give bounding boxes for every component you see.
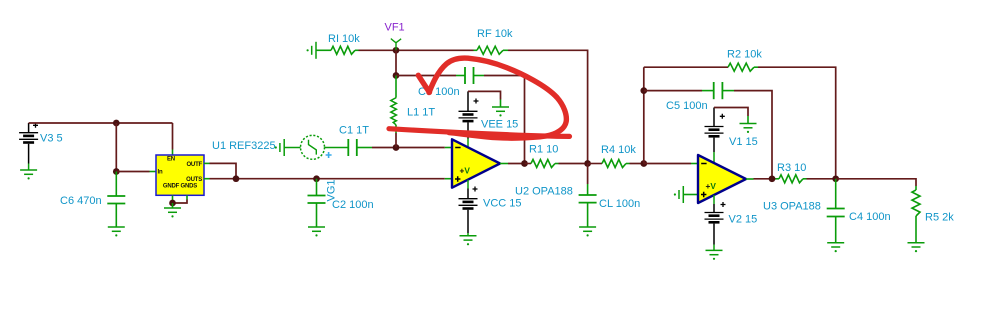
svg-text:C4 100n: C4 100n <box>849 211 891 223</box>
wire RF to output node <box>508 50 588 163</box>
svg-text:EN: EN <box>167 156 175 162</box>
op-amp U3 <box>683 155 753 203</box>
wire V1 + to ground <box>714 108 748 117</box>
capacitor C5 <box>644 82 734 99</box>
ground of R5 <box>908 243 925 253</box>
wire down to In row <box>115 123 117 172</box>
resistor R2 <box>644 63 758 71</box>
svg-text:C5 100n: C5 100n <box>666 100 708 112</box>
node RF/CL tap <box>584 160 591 167</box>
node C5 return tap <box>769 175 776 182</box>
svg-text:CL 100n: CL 100n <box>599 198 640 210</box>
ground of C2 <box>308 227 325 236</box>
svg-text:R2 10k: R2 10k <box>727 49 762 61</box>
wire C1 to U2 minus input <box>372 147 445 149</box>
ground at VG1 input (rotated left) <box>275 139 285 156</box>
ground at U3 plus input (rotated left) <box>674 186 683 203</box>
battery VCC <box>459 180 478 236</box>
resistor R4 <box>588 160 630 168</box>
svg-text:+V: +V <box>706 181 717 191</box>
svg-text:R3 10: R3 10 <box>777 162 806 174</box>
node In-row junction <box>113 168 120 175</box>
inductor L1 <box>391 76 397 134</box>
resistor R5 <box>912 186 920 243</box>
capacitor C3 <box>396 67 484 84</box>
svg-text:In: In <box>158 169 163 175</box>
svg-text:C6 470n: C6 470n <box>60 195 102 207</box>
wire R2 right riser <box>758 67 836 179</box>
node C5 tap <box>640 87 647 94</box>
svg-text:R1 10: R1 10 <box>529 144 558 156</box>
ground of VCC <box>460 236 477 245</box>
red annotation hook <box>418 75 429 92</box>
svg-text:V2 15: V2 15 <box>729 213 758 225</box>
IC U1 REF3225 <box>156 155 204 195</box>
svg-text:V3 5: V3 5 <box>40 132 63 144</box>
svg-text:VF1: VF1 <box>385 22 405 34</box>
node OUTF/OUTS join <box>233 175 240 182</box>
wire to U1 In pin <box>116 171 149 173</box>
wire R2 left riser <box>643 67 645 163</box>
red annotation loop <box>429 58 566 138</box>
svg-text:R4 10k: R4 10k <box>601 144 636 156</box>
wire to R5 <box>836 179 916 186</box>
wire U3 output <box>754 178 776 180</box>
ground of CL <box>579 227 596 236</box>
capacitor C6 <box>107 172 125 228</box>
voltage generator VG1 <box>284 135 348 159</box>
svg-text:VG1: VG1 <box>326 179 338 201</box>
wire U2 output <box>508 163 525 165</box>
resistor R1 <box>525 160 559 168</box>
node C3 feedback tap <box>521 160 528 167</box>
svg-text:GNDF GNDS: GNDF GNDS <box>163 183 197 189</box>
resistor RI <box>316 46 359 54</box>
wire OUTS row to op-amp + input <box>204 178 210 180</box>
svg-text:RI 10k: RI 10k <box>328 33 360 45</box>
ground of U1 <box>164 203 181 217</box>
resistor R3 <box>776 175 807 183</box>
node stage-2 input <box>640 160 647 167</box>
svg-text:U2 OPA188: U2 OPA188 <box>515 186 573 198</box>
svg-text:C2 100n: C2 100n <box>332 199 374 211</box>
ground of VEE <box>492 100 509 117</box>
node V3/C6 junction <box>113 120 120 127</box>
svg-text:V1 15: V1 15 <box>729 136 758 148</box>
wire C5 to output <box>734 91 772 179</box>
svg-text:U1 REF3225: U1 REF3225 <box>212 140 276 152</box>
svg-text:L1 1T: L1 1T <box>407 107 435 119</box>
node U1 ground <box>169 200 176 207</box>
ground at RI (rotated left) <box>307 42 317 59</box>
wire VF1 down <box>395 50 397 75</box>
voltage pin VF1 <box>391 39 401 51</box>
svg-text:C1 1T: C1 1T <box>339 124 369 136</box>
svg-text:RF 10k: RF 10k <box>477 28 513 40</box>
resistor RF <box>474 46 509 54</box>
node VF1 <box>393 47 400 54</box>
op-amp U2 <box>445 139 508 187</box>
wire EN drop <box>172 123 174 150</box>
wire C3 to output node <box>484 76 525 164</box>
ground of C6 <box>108 227 125 236</box>
battery V2 <box>705 195 726 250</box>
wire GNDF/GNDS <box>172 195 174 203</box>
ground of C4 <box>827 243 844 253</box>
capacitor C2 <box>308 179 326 227</box>
svg-text:OUTS: OUTS <box>186 177 202 183</box>
svg-text:R5 2k: R5 2k <box>925 212 954 224</box>
svg-text:OUTF: OUTF <box>186 162 202 168</box>
wire VEE + to ground <box>468 91 501 99</box>
battery V1 <box>705 108 725 163</box>
capacitor C4 <box>827 179 845 243</box>
ground of V3 <box>20 170 37 179</box>
wire stage-2 minus input <box>644 163 691 165</box>
node C2 tap <box>313 175 320 182</box>
red annotation underline <box>389 129 570 137</box>
wire RI to VF1 node <box>359 49 474 51</box>
wire R3 to R2 node <box>807 178 836 180</box>
node minus-input junction <box>393 144 400 151</box>
wire R4 to stage-2 node <box>630 163 644 165</box>
ground of V2 <box>706 250 723 260</box>
capacitor CL <box>579 164 597 228</box>
svg-text:VCC 15: VCC 15 <box>483 197 522 209</box>
svg-text:+V: +V <box>460 166 471 176</box>
wire OUTF loop <box>204 162 210 164</box>
battery VEE <box>459 91 479 147</box>
wire L1 to minus node <box>395 133 397 148</box>
wire R1 to CL node <box>559 163 588 165</box>
ground of V1 <box>740 116 757 133</box>
svg-text:VEE 15: VEE 15 <box>481 118 518 130</box>
battery V3 <box>19 123 38 170</box>
wire V3 top rail <box>29 122 173 124</box>
node R2/C4 tap <box>832 175 839 182</box>
svg-text:U3 OPA188: U3 OPA188 <box>763 201 821 213</box>
capacitor C1 <box>348 139 372 156</box>
node C3 tap <box>393 72 400 79</box>
